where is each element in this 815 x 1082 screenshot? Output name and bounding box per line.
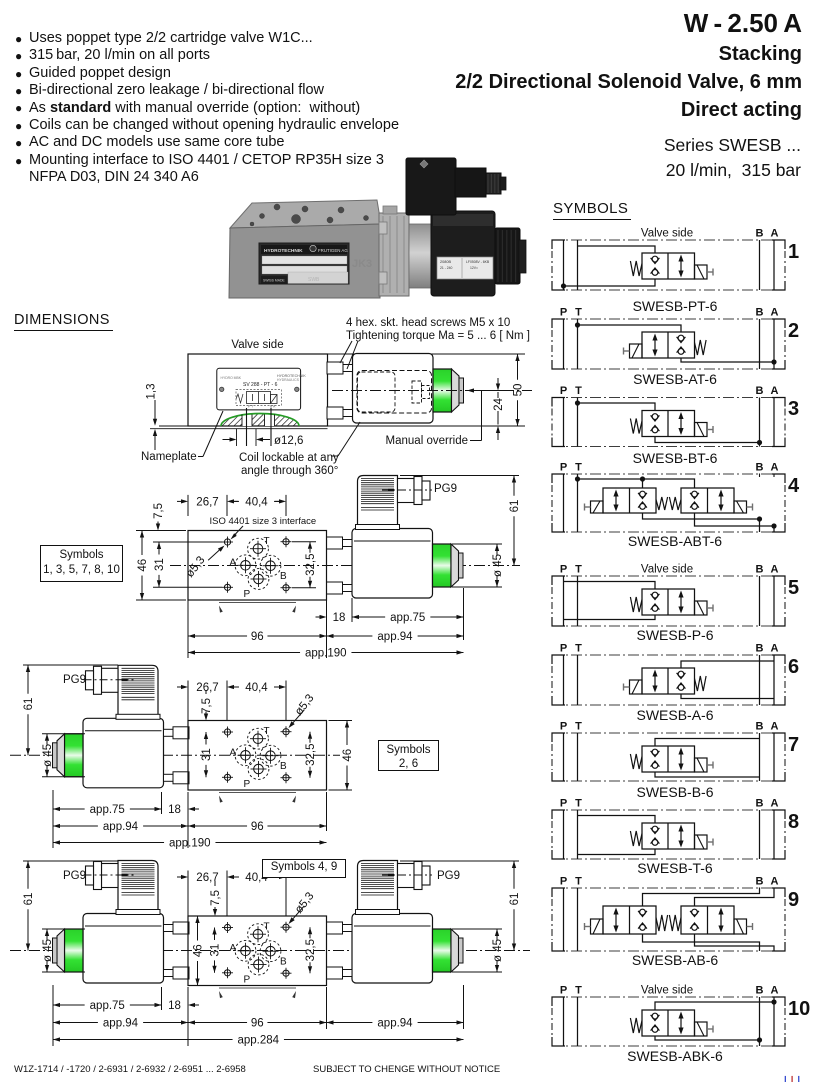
- solenoid actuator: [630, 680, 643, 694]
- P port line: [563, 319, 565, 369]
- left valve poppets: [640, 491, 646, 497]
- valve body boxes: [642, 589, 695, 615]
- B port line: [759, 997, 761, 1046]
- poppet symbols: [678, 335, 684, 341]
- port seal circles (dashed): [248, 538, 269, 559]
- photo: connector body: [406, 158, 456, 215]
- wire: [578, 246, 656, 253]
- T port line: [577, 240, 579, 290]
- d1 coil dashed outline: [357, 371, 432, 414]
- d1 dimension 24: [470, 390, 505, 392]
- subplate boundary top: [552, 809, 785, 811]
- d4 right dimension o45: [452, 928, 502, 930]
- scan artifact marks: [782, 1075, 802, 1082]
- subplate boundary top: [552, 996, 785, 998]
- svg-text:P: P: [560, 876, 567, 888]
- P port line: [563, 810, 565, 859]
- wire: [655, 1002, 774, 1010]
- d4 right dimension 61: [400, 860, 519, 862]
- svg-text:P: P: [560, 564, 567, 576]
- flow arrow: [654, 338, 656, 353]
- return spring: [630, 597, 642, 612]
- svg-text:P: P: [560, 462, 567, 474]
- wire: [578, 479, 643, 488]
- d2 centerline: [170, 565, 520, 567]
- mounting bolt hole 4: [283, 970, 289, 976]
- cap cone: [57, 734, 65, 777]
- port B hole: [266, 561, 276, 571]
- poppet symbols: [652, 414, 658, 420]
- left valve boxes: [603, 906, 656, 934]
- wire: [695, 513, 775, 532]
- valve body boxes: [642, 1010, 695, 1036]
- wire: [681, 358, 774, 362]
- photo: connector horizontal arm: [455, 168, 486, 197]
- photo: nameplate: [259, 243, 349, 284]
- T port line: [577, 997, 579, 1046]
- mounting face mark: [219, 602, 296, 604]
- P port line: [563, 733, 565, 781]
- svg-text:P: P: [560, 721, 567, 733]
- svg-text:T: T: [575, 564, 582, 576]
- junction: [757, 1037, 762, 1042]
- solenoid body: [352, 529, 433, 599]
- svg-text:Valve side: Valve side: [641, 228, 693, 240]
- B port line: [759, 398, 761, 447]
- right bracket: [772, 576, 785, 585]
- P port line: [563, 398, 565, 447]
- junction: [561, 283, 566, 288]
- wire: [643, 934, 760, 951]
- solenoid flange line: [85, 730, 162, 732]
- flow arrow: [680, 416, 682, 431]
- symbols reference box 1: [40, 545, 123, 582]
- port T hole: [253, 929, 263, 939]
- valve body boxes: [642, 332, 695, 358]
- poppet symbols: [652, 592, 658, 598]
- solenoid flange line: [354, 925, 431, 927]
- mounting bolt hole 3: [224, 774, 230, 780]
- d1 top/bottom surface extension: [328, 353, 526, 355]
- wire: [655, 772, 760, 777]
- override pin: [53, 743, 58, 768]
- plug centerline: [382, 874, 432, 876]
- svg-text:A: A: [771, 985, 779, 997]
- mounting bolt hole 3: [224, 970, 230, 976]
- right bracket: [772, 810, 785, 819]
- footer notice: [313, 1064, 500, 1075]
- subplate boundary bottom: [552, 289, 785, 291]
- wire: [643, 513, 760, 532]
- port A hole: [241, 561, 251, 571]
- mounting bolt hole 4: [283, 585, 289, 591]
- port T hole: [253, 734, 263, 744]
- PG9 cable gland: [102, 668, 119, 692]
- wire: [681, 661, 774, 668]
- d1 dimension 50: [515, 354, 519, 361]
- svg-text:T: T: [575, 643, 582, 655]
- right bracket: [772, 888, 785, 897]
- junction: [757, 440, 762, 445]
- d4 left dimension 61: [23, 860, 118, 862]
- solenoid body: [83, 914, 164, 984]
- cap cone: [452, 369, 460, 412]
- A port line: [773, 319, 775, 369]
- subplate boundary top: [552, 318, 785, 320]
- mounting bolt hole 1: [224, 539, 230, 545]
- wire: [681, 694, 774, 699]
- override pin: [459, 553, 464, 578]
- port P hole: [254, 764, 264, 774]
- mounting bolt hole 2: [283, 924, 289, 930]
- valve body boxes: [642, 668, 695, 694]
- override pin: [53, 938, 58, 963]
- right solenoid actuator: [734, 919, 747, 934]
- footer part numbers: [14, 1064, 246, 1075]
- d3 dimension app.190: [53, 840, 60, 844]
- subplate boundary top: [552, 397, 785, 399]
- connector base: [356, 910, 400, 915]
- wire: [655, 1036, 760, 1040]
- solenoid body: [353, 354, 434, 424]
- svg-text:T: T: [575, 985, 582, 997]
- mounting tabs and screws: [327, 362, 343, 374]
- P port line: [563, 997, 565, 1046]
- T port line: [577, 319, 579, 369]
- right bracket: [772, 474, 785, 483]
- right valve boxes: [681, 488, 734, 513]
- poppet symbols: [652, 1013, 658, 1019]
- DIMENSIONS header: [14, 312, 113, 331]
- left bracket: [552, 576, 565, 585]
- d4 dimension app.94 left: [53, 1020, 60, 1024]
- port B hole: [266, 751, 276, 761]
- junction: [757, 516, 762, 521]
- A port line: [773, 997, 775, 1046]
- plug centerline: [382, 489, 432, 491]
- flow arrow: [680, 1016, 682, 1031]
- svg-text:B: B: [756, 564, 764, 576]
- A port line: [773, 810, 775, 859]
- return spring: [630, 754, 642, 769]
- PG9 cable gland: [398, 864, 415, 888]
- left bracket: [552, 888, 565, 897]
- wire: [564, 279, 656, 286]
- symbols reference box 2: [378, 740, 439, 771]
- wire: [695, 888, 775, 907]
- cap cone: [57, 929, 65, 972]
- port P hole: [254, 574, 264, 584]
- wire: [655, 739, 760, 747]
- d1 centerline: [332, 390, 532, 392]
- wire: [578, 816, 656, 824]
- dimension 40,4: [285, 681, 287, 721]
- port A hole: [241, 946, 251, 956]
- d3 centerline: [10, 754, 340, 756]
- valve block outline (top view): [188, 721, 327, 791]
- right valve poppets: [692, 909, 698, 915]
- photo: adapter plate: [379, 213, 409, 296]
- mounting face mark: [219, 987, 296, 989]
- svg-text:A: A: [771, 876, 779, 888]
- mounting bolt hole 2: [283, 539, 289, 545]
- mounting tabs and screws: [173, 922, 189, 934]
- svg-text:B: B: [756, 228, 764, 240]
- feature bullet list: [15, 32, 22, 46]
- subplate boundary bottom: [552, 1045, 785, 1047]
- photo: coil (black): [431, 211, 495, 296]
- d1 dimension 1,3: [154, 400, 156, 419]
- subplate boundary bottom: [552, 368, 785, 370]
- d2 dimension 96: [188, 634, 195, 638]
- T port line: [577, 474, 579, 532]
- subplate boundary bottom: [552, 950, 785, 952]
- svg-text:A: A: [771, 643, 779, 655]
- dimension 7,5: [214, 881, 216, 886]
- svg-text:P: P: [560, 798, 567, 810]
- d4 left dimension o45: [42, 928, 85, 930]
- wire: [564, 582, 656, 590]
- B port line: [759, 319, 761, 369]
- d1 manual override arrow: [467, 388, 474, 392]
- P port line: [563, 576, 565, 626]
- dimension 7,5: [156, 524, 160, 531]
- right valve poppets: [692, 491, 698, 497]
- d4 dimension 46: [195, 916, 199, 923]
- photo: valve block front face: [229, 224, 381, 298]
- valve body boxes: [642, 823, 695, 849]
- mounting bolt hole 1: [224, 729, 230, 735]
- svg-text:B: B: [756, 876, 764, 888]
- subplate boundary top: [552, 887, 785, 889]
- solenoid actuator: [630, 344, 643, 358]
- subplate boundary bottom: [552, 446, 785, 448]
- T port line: [577, 398, 579, 447]
- left bracket: [552, 997, 565, 1006]
- d3 dimension 31: [204, 732, 208, 739]
- PG9 cable gland: [102, 864, 119, 888]
- left valve flow arrow: [615, 494, 617, 508]
- flow arrow: [680, 595, 682, 610]
- right valve boxes: [681, 906, 734, 934]
- left solenoid actuator: [591, 501, 604, 513]
- subplate boundary bottom: [552, 531, 785, 533]
- d3 dimension 46: [329, 720, 353, 722]
- connector base: [116, 910, 160, 915]
- dimension 26,7: [187, 871, 189, 917]
- right bracket: [772, 319, 785, 328]
- d4 dimension 31: [212, 928, 216, 935]
- subplate boundary bottom: [552, 625, 785, 627]
- cable connector housing: [118, 665, 158, 714]
- T port line: [577, 810, 579, 859]
- A port line: [773, 576, 775, 626]
- return spring: [630, 261, 642, 276]
- connector fins: [122, 667, 155, 669]
- subplate boundary top: [552, 575, 785, 577]
- return spring: [695, 340, 707, 355]
- left valve poppets: [640, 909, 646, 915]
- d2 dimension 32,5: [292, 541, 316, 543]
- svg-text:Valve side: Valve side: [641, 985, 693, 997]
- d2 dimension app.190: [188, 650, 195, 654]
- left bracket: [552, 240, 565, 249]
- poppet symbols: [652, 826, 658, 832]
- d2 dimension 46: [136, 530, 186, 532]
- dimension 40,4: [285, 871, 287, 917]
- wire: [578, 325, 682, 332]
- port A hole: [241, 751, 251, 761]
- subplate boundary bottom: [552, 704, 785, 706]
- junction: [640, 476, 645, 481]
- wire: [695, 934, 775, 951]
- right bracket: [772, 240, 785, 249]
- connector fins: [361, 478, 394, 480]
- svg-text:B: B: [756, 643, 764, 655]
- d2 bottom dimension extension lines: [187, 601, 189, 659]
- dimension 26,7: [187, 681, 189, 721]
- right bracket: [772, 655, 785, 664]
- left bracket: [552, 810, 565, 819]
- poppet symbols: [678, 671, 684, 677]
- mounting bolt hole 4: [283, 775, 289, 781]
- wire: [643, 888, 760, 907]
- d2 dimension 61: [400, 475, 519, 477]
- d2 dimension app.94: [327, 634, 334, 638]
- P port line: [563, 888, 565, 951]
- solenoid body: [83, 718, 164, 788]
- right bracket: [772, 733, 785, 742]
- override pin: [459, 938, 464, 963]
- d3 dimension app.94: [53, 824, 60, 828]
- solenoid actuator: [695, 758, 708, 772]
- subplate boundary top: [552, 239, 785, 241]
- d1 nameplate: [217, 368, 301, 410]
- A port line: [773, 733, 775, 781]
- svg-text:T: T: [575, 876, 582, 888]
- valve body boxes: [642, 746, 695, 772]
- return spring: [630, 419, 642, 434]
- B port line: [759, 576, 761, 626]
- T port line: [577, 655, 579, 705]
- SYMBOLS header: [553, 200, 631, 220]
- d4 dimension app.75: [53, 1003, 60, 1007]
- P port line: [563, 240, 565, 290]
- center springs: [656, 497, 668, 510]
- left valve flow arrow: [615, 912, 617, 929]
- d2 dimension 31: [153, 541, 222, 543]
- d4 dimension 96: [188, 1020, 195, 1024]
- subplate boundary top: [552, 732, 785, 734]
- photo: coil label: [437, 257, 493, 279]
- left bracket: [552, 474, 565, 483]
- d3 dimension 32,5: [308, 732, 312, 739]
- port P hole: [254, 960, 264, 970]
- mounting bolt hole 2: [283, 729, 289, 735]
- junction: [575, 322, 580, 327]
- valve block outline (top view): [188, 916, 327, 986]
- left bracket: [552, 319, 565, 328]
- wire: [643, 479, 695, 488]
- left solenoid actuator: [591, 919, 604, 934]
- port seal circles (dashed): [248, 924, 269, 945]
- valve body boxes: [642, 411, 695, 437]
- T port line: [577, 733, 579, 781]
- cable connector housing: [118, 861, 158, 910]
- port T hole: [253, 544, 263, 554]
- svg-text:P: P: [560, 385, 567, 397]
- dimension 7,5: [205, 690, 207, 694]
- B A stubs: [759, 474, 761, 519]
- port B hole: [266, 946, 276, 956]
- mounting tabs and screws: [173, 727, 189, 739]
- wire: [655, 437, 760, 443]
- svg-text:P: P: [560, 643, 567, 655]
- svg-text:A: A: [771, 228, 779, 240]
- junction: [575, 476, 580, 481]
- right valve flow arrow: [720, 912, 722, 929]
- solenoid actuator: [695, 835, 708, 849]
- d3 dimension 61: [23, 664, 118, 666]
- connector base: [356, 525, 400, 530]
- solenoid flange line: [85, 925, 162, 927]
- mounting face mark: [219, 792, 296, 794]
- right solenoid actuator: [734, 501, 747, 513]
- poppet symbols: [652, 256, 658, 262]
- cap cone: [451, 544, 459, 587]
- svg-text:P: P: [560, 985, 567, 997]
- right valve flow arrow: [720, 494, 722, 508]
- flow arrow: [654, 674, 656, 689]
- connector base: [116, 714, 160, 719]
- right bracket: [772, 997, 785, 1006]
- d4 bottom extension lines: [52, 985, 54, 1046]
- solenoid actuator: [695, 1022, 708, 1036]
- svg-text:Valve side: Valve side: [641, 564, 693, 576]
- dimension 26,7: [187, 495, 189, 516]
- A port line: [773, 398, 775, 447]
- d1 block outline: [188, 354, 328, 426]
- flow arrow: [680, 752, 682, 767]
- d3 bottom extension lines: [52, 790, 54, 848]
- mounting bolt hole 3: [224, 584, 230, 590]
- left bracket: [552, 398, 565, 407]
- solenoid flange line: [354, 540, 431, 542]
- symbols reference box 3: [262, 859, 346, 878]
- mounting tabs and screws: [327, 922, 343, 934]
- photo: valve block top face: [230, 200, 381, 228]
- svg-text:B: B: [756, 985, 764, 997]
- solenoid body: [352, 914, 433, 984]
- d4 centerline: [10, 950, 530, 952]
- B port line: [759, 655, 761, 705]
- left valve boxes: [603, 488, 656, 513]
- junction: [575, 400, 580, 405]
- B port line: [759, 240, 761, 290]
- plug centerline: [84, 874, 134, 876]
- A port line: [773, 655, 775, 705]
- symbol numbers: [788, 241, 799, 264]
- override pin: [459, 378, 464, 403]
- junction: [771, 523, 776, 528]
- cap cone: [451, 929, 459, 972]
- wire: [578, 403, 656, 411]
- d4 dimension app.284: [53, 1037, 60, 1041]
- right bracket: [772, 398, 785, 407]
- junction: [771, 999, 776, 1004]
- subplate boundary bottom: [552, 780, 785, 782]
- B port line: [759, 733, 761, 781]
